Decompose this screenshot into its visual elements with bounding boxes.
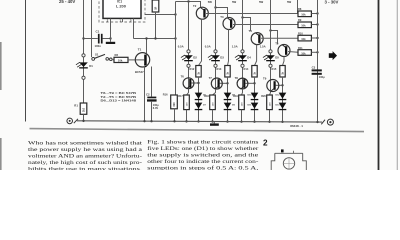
node rail R17 (185, 120, 187, 122)
regulator IC1 L200 body (103, 0, 141, 18)
wire T3 collector to R9 (233, 24, 298, 26)
svg-text:10k: 10k (301, 24, 306, 28)
transistor T9 (267, 80, 279, 92)
transistor T3 (223, 18, 235, 30)
node rail 151.5 (150, 120, 152, 122)
wire R18 to rail (212, 110, 214, 122)
svg-text:T2: T2 (193, 4, 197, 8)
svg-text:D6...D13 = 1N4148: D6...D13 = 1N4148 (101, 98, 137, 102)
node branch base 3 (253, 82, 255, 84)
node rail R20 (268, 121, 270, 123)
svg-text:0.5A: 0.5A (205, 44, 211, 48)
svg-text:T8: T8 (235, 76, 239, 80)
node jog3 (241, 16, 243, 18)
wire emitter T8 to R19 (242, 89, 243, 95)
wire chain drop A (175, 2, 177, 96)
svg-text:5W: 5W (259, 0, 264, 4)
svg-text:R1: R1 (74, 103, 78, 107)
wire emitter T9 to R20 (270, 92, 271, 96)
wire T1 emitter to rail (144, 66, 146, 121)
transistor T2 (196, 7, 208, 19)
regulator IC1 L200 dashed outline (99, 0, 145, 22)
transistor T7 (211, 78, 222, 89)
resistor R3 (152, 0, 159, 12)
capacitor C2 (147, 97, 156, 99)
svg-text:820: 820 (173, 102, 176, 107)
wire stage jog T4 (243, 18, 251, 32)
wire branch 4 down (282, 77, 284, 122)
wire base stub 3 (245, 82, 254, 84)
svg-text:hibits their use in many situa: hibits their use in many situations. (28, 166, 142, 170)
parts equivalence note (101, 91, 138, 102)
wire T5 drop to R15 (283, 57, 285, 66)
LED D1 lower circle (82, 76, 85, 79)
node R3 (154, 37, 156, 39)
svg-text:T7: T7 (209, 76, 213, 80)
resistor R9 (298, 22, 311, 28)
resistor R20 (267, 95, 273, 110)
terminal left (67, 118, 73, 124)
page left border (25, 0, 27, 122)
svg-text:2: 2 (263, 139, 268, 148)
page right border faint (396, 0, 398, 170)
node rail branch 2 (226, 120, 228, 122)
scan edge mark upper (0, 42, 2, 90)
svg-text:R12: R12 (190, 67, 195, 71)
svg-text:10k: 10k (301, 37, 306, 41)
svg-text:T6: T6 (181, 75, 185, 79)
wire base stub 2 (220, 82, 228, 84)
svg-text:sumption in steps of 0.5 A: 0.: sumption in steps of 0.5 A: 0.5 A, (147, 165, 258, 170)
svg-text:10k: 10k (118, 59, 123, 63)
diode D9 (224, 103, 232, 109)
svg-text:the supply is switched on, and: the supply is switched on, and the (147, 153, 259, 159)
node rail branch 4 (281, 121, 283, 123)
wire stage jog T5 (271, 31, 278, 45)
resistor R2 (114, 57, 128, 62)
svg-text:R14: R14 (244, 67, 249, 71)
wire L200 pin5 down (133, 22, 135, 39)
ground on rail (213, 122, 215, 124)
wire output bus (317, 0, 319, 122)
svg-text:R17: R17 (178, 95, 183, 98)
node rail R19 (240, 120, 242, 122)
node rail branch 1 (197, 120, 199, 122)
node bus R11 (316, 51, 318, 53)
pin 5 (133, 18, 135, 22)
transistor T6 (183, 78, 194, 89)
LED D2 lower circle (187, 64, 190, 67)
LED D5 (269, 50, 272, 53)
terminal right (321, 120, 325, 125)
wire C1 left (84, 38, 98, 40)
figure 2 fragment (271, 153, 306, 170)
wire emitter T7 to R18 (213, 89, 216, 95)
svg-text:T9: T9 (263, 76, 267, 80)
node bus R10 (316, 37, 318, 39)
wire T4 collector to R10 (261, 37, 298, 39)
svg-text:BC547: BC547 (135, 70, 144, 74)
svg-text:D4: D4 (247, 55, 251, 59)
LED D2 (187, 50, 190, 53)
wire T1 collector (146, 39, 148, 54)
svg-text:R10: R10 (298, 32, 303, 36)
svg-text:R8: R8 (298, 7, 302, 11)
svg-text:25 - 40V: 25 - 40V (59, 0, 75, 4)
capacitor C1 (98, 34, 100, 44)
transistor T1 (135, 53, 149, 67)
svg-text:5W: 5W (208, 0, 213, 4)
node jog2 (214, 6, 216, 8)
wire C2 to rail (151, 102, 153, 121)
LED D4 (241, 50, 244, 53)
svg-text:86448 - 1: 86448 - 1 (290, 124, 303, 128)
wire C1 right (103, 38, 111, 40)
wire R3 down (155, 12, 157, 39)
wire LED column 4 (270, 0, 272, 93)
diode D12 (279, 93, 287, 99)
svg-text:R18: R18 (204, 95, 209, 98)
svg-text:100µ: 100µ (319, 75, 325, 79)
svg-text:R19: R19 (233, 95, 238, 98)
svg-text:other four to indicate the cur: other four to indicate the current con- (147, 158, 258, 165)
node bus R9 (316, 23, 318, 25)
output arrow (329, 51, 337, 60)
resistor R19 (239, 95, 245, 110)
figure 2 lead blob (281, 149, 284, 152)
node rail branch 3 (253, 121, 255, 123)
node bus R8 (316, 12, 318, 14)
wire branch 1 down (198, 77, 200, 121)
node jog4 (269, 29, 271, 31)
svg-text:nately, the high cost of such: nately, the high cost of such units pro- (28, 159, 142, 166)
svg-text:10k: 10k (301, 51, 306, 55)
wire T2 collector to R8 (206, 13, 298, 15)
svg-text:3 - 30V: 3 - 30V (325, 0, 339, 4)
LED D4 lower circle (241, 64, 244, 67)
svg-text:R13: R13 (217, 67, 222, 71)
node T1 collector (145, 37, 147, 39)
node branch base 1 (197, 82, 199, 84)
wire R20 to rail (269, 110, 271, 122)
resistor R1 (80, 103, 87, 114)
resistor R8 (298, 11, 311, 17)
diode D10 (251, 93, 259, 99)
node chain y14 (174, 13, 176, 15)
svg-text:D3: D3 (220, 55, 224, 59)
node rail R18 (211, 120, 213, 122)
svg-text:C2: C2 (146, 92, 150, 96)
bottom rail (77, 121, 322, 122)
svg-text:100n: 100n (95, 44, 102, 48)
svg-text:voltmeter AND an ammeter? Unfo: voltmeter AND an ammeter? Unfortu- (28, 152, 142, 159)
node branch base 4 (281, 84, 283, 86)
LED D1 (82, 54, 85, 57)
node C1 right junction (109, 37, 111, 39)
LED D3 lower circle (214, 64, 217, 67)
svg-text:C1: C1 (96, 30, 100, 34)
body text columns (28, 140, 259, 173)
svg-text:R16: R16 (163, 93, 168, 97)
wire LED column 2 (215, 0, 217, 93)
svg-text:D5: D5 (275, 55, 279, 59)
svg-text:R20: R20 (261, 95, 266, 98)
svg-text:1.5A: 1.5A (260, 44, 266, 48)
wire LED column 1 (188, 2, 190, 93)
svg-text:L 200: L 200 (116, 3, 126, 8)
svg-text:1.5A: 1.5A (232, 44, 238, 48)
resistor R11 (298, 50, 311, 56)
node input junction (82, 37, 84, 39)
svg-text:T1: T1 (138, 47, 142, 51)
svg-text:R15: R15 (272, 67, 277, 71)
separator rule (30, 129, 365, 132)
ground (106, 42, 115, 44)
svg-text:the power supply he was using: the power supply he was using had a (28, 147, 143, 153)
svg-text:6.3V: 6.3V (153, 106, 159, 110)
svg-text:S1: S1 (95, 52, 99, 56)
svg-text:0.5A: 0.5A (178, 44, 184, 48)
svg-text:5W: 5W (232, 0, 237, 4)
diode D13 (279, 103, 287, 109)
wire top rail to T2 (176, 2, 201, 8)
wire R16 to rail (174, 109, 176, 122)
svg-text:R2: R2 (115, 53, 119, 57)
svg-text:R11: R11 (298, 46, 303, 50)
svg-text:Who has not sometimes wished t: Who has not sometimes wished that (28, 140, 143, 146)
wire emitter T6 to R17 (187, 89, 189, 95)
wire C2 branch upper (151, 67, 153, 97)
wire node row (134, 38, 176, 40)
resistor R18 (210, 95, 216, 110)
wire input to S1 (91, 0, 93, 57)
wire base stub 4 (276, 84, 283, 86)
transistor T8 (237, 78, 248, 89)
node rail 174.5 (173, 120, 175, 122)
diode D8 (224, 93, 232, 99)
resistor R10 (298, 35, 311, 41)
node top col1 (187, 0, 189, 2)
pin 1 (122, 18, 124, 22)
svg-text:10k: 10k (301, 13, 306, 17)
LED D5 lower circle (269, 64, 272, 67)
transistor T5 (278, 45, 290, 57)
wire input vertical (83, 0, 85, 103)
svg-text:C3: C3 (312, 66, 316, 70)
diode D6 (195, 93, 203, 99)
svg-text:1R: 1R (155, 6, 158, 9)
diode D7 (195, 103, 203, 109)
svg-text:D2: D2 (193, 55, 197, 59)
switch S1 (92, 58, 95, 61)
wire R1 to rail (83, 114, 85, 121)
wire chain drop to R8 (297, 0, 299, 14)
wire R17 to rail (186, 110, 188, 122)
pin 3 (110, 18, 112, 22)
svg-text:R9: R9 (298, 18, 302, 22)
scan edge mark lower (0, 138, 2, 170)
svg-text:D1: D1 (89, 64, 93, 68)
wire base stub 1 (191, 82, 198, 84)
LED D3 (214, 50, 217, 53)
node rail 83.5 (82, 120, 84, 122)
figure 2 lead tick (293, 151, 295, 154)
diode D11 (251, 103, 259, 109)
svg-text:five LEDs: one (D1) to show wh: five LEDs: one (D1) to show whether (147, 145, 258, 152)
resistor R16 (171, 95, 178, 109)
svg-text:2k2: 2k2 (83, 107, 86, 112)
wire R19 to rail (241, 110, 243, 122)
svg-text:Fig. 1 shows that the circuit: Fig. 1 shows that the circuit contains (147, 140, 258, 146)
svg-text:5W: 5W (287, 0, 292, 4)
wire T2 drop to R12 (199, 19, 202, 65)
node branch base 2 (226, 82, 228, 84)
resistor R17 (184, 95, 190, 110)
node chain y38 (174, 37, 176, 39)
page right border thick (378, 0, 380, 170)
wire L200 out to chain (145, 14, 176, 16)
wire T5 collector to R11 (288, 51, 298, 54)
svg-text:T3: T3 (220, 15, 224, 19)
wire L200 pin3 to ground (110, 22, 112, 42)
wire stage jog T3 (216, 8, 228, 18)
wire T4 drop to R14 (255, 45, 257, 66)
wire T3 drop to R13 (228, 29, 229, 65)
transistor T4 (251, 33, 263, 45)
node rail 317.5 (316, 121, 318, 123)
node rail 144.5 (143, 120, 145, 122)
wire branch 2 down (227, 77, 229, 122)
wire branch 3 down (254, 77, 256, 122)
wire LED column 3 (242, 0, 244, 93)
